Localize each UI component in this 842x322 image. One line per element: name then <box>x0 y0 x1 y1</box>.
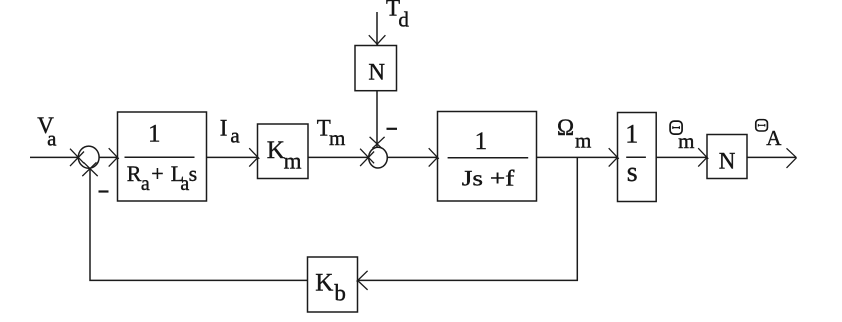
svg-text:m: m <box>284 149 302 174</box>
svg-text:d: d <box>398 8 409 32</box>
svg-text:a: a <box>47 127 57 151</box>
svg-text:b: b <box>334 281 346 306</box>
svg-text:1: 1 <box>475 128 488 155</box>
svg-text:I: I <box>220 116 228 141</box>
svg-text:1: 1 <box>148 120 161 147</box>
svg-text:a: a <box>230 124 240 148</box>
svg-text:A: A <box>766 126 782 150</box>
svg-text:s: s <box>189 161 198 186</box>
svg-text:m: m <box>575 129 591 153</box>
svg-text:s: s <box>627 157 638 188</box>
svg-text:K: K <box>315 270 333 297</box>
svg-text:a: a <box>180 173 189 195</box>
svg-text:+: + <box>151 161 163 186</box>
svg-text:N: N <box>719 149 736 174</box>
svg-text:Js +f: Js +f <box>462 166 515 191</box>
svg-text:a: a <box>141 173 150 195</box>
svg-text:1: 1 <box>625 120 638 149</box>
svg-text:N: N <box>368 59 385 84</box>
svg-text:K: K <box>267 137 285 164</box>
svg-text:m: m <box>329 126 345 150</box>
svg-text:R: R <box>127 161 142 186</box>
svg-text:Ω: Ω <box>557 115 574 140</box>
